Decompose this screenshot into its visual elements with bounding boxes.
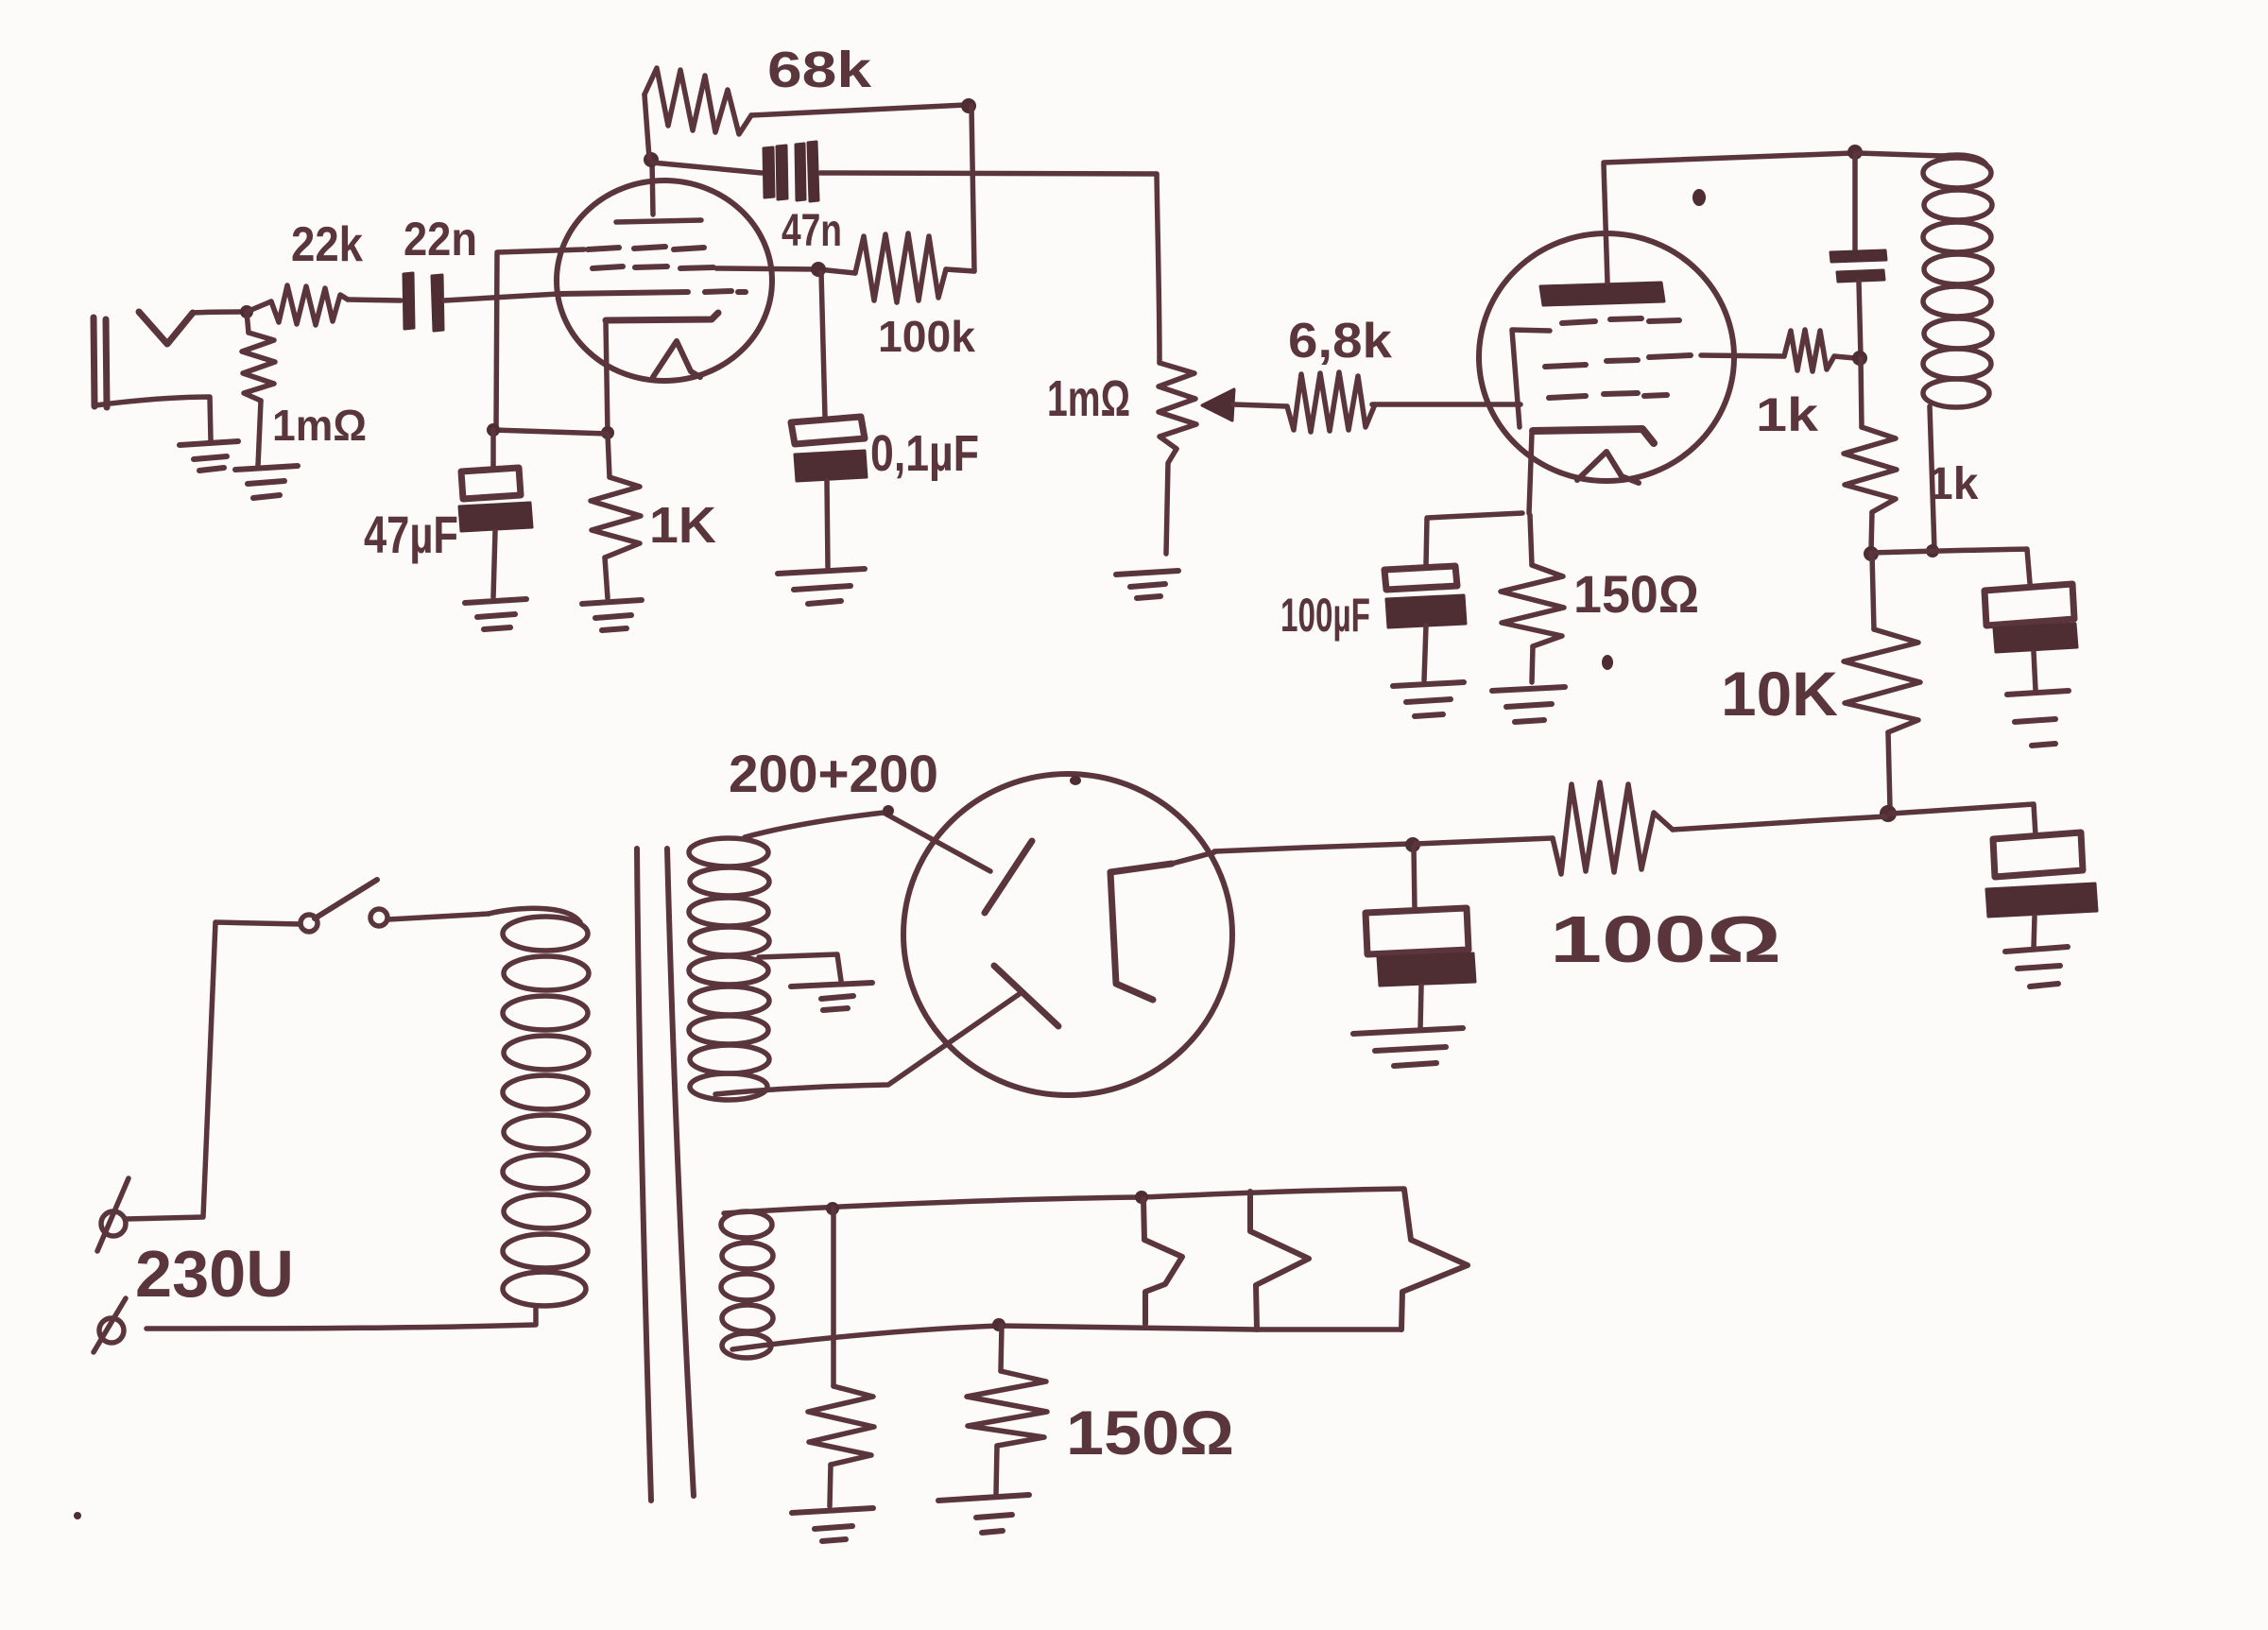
switch S1 [301, 880, 387, 932]
svg-text:150Ω: 150Ω [1066, 1398, 1234, 1467]
ground filter cap [1353, 1028, 1463, 1066]
node coil rail joint [1926, 544, 1939, 558]
ink blot near V2 [1692, 189, 1706, 206]
wire cathode V3 to B+ [1172, 852, 1214, 864]
wire down to 47uF [490, 430, 496, 469]
heater winding bottom wire [732, 1326, 1401, 1349]
wire 100k right vertical [971, 106, 974, 271]
capacitor 47n feedback [764, 142, 818, 201]
wire screen node down [821, 272, 825, 417]
heater V2 [1577, 452, 1639, 483]
wire wiper to 6.8k [1233, 404, 1287, 406]
grid g1 dashes V2 [1549, 393, 1667, 398]
wire L to switch [127, 922, 301, 1219]
wire HV top to rectifier anode [884, 813, 990, 871]
wire HV bottom to rectifier anode2 [715, 993, 1021, 1094]
wire jack tip to node A [193, 312, 245, 313]
wire g3 entry [497, 249, 584, 252]
node screen V1 [811, 262, 826, 277]
node plate V1 [644, 152, 659, 167]
resistor 6.8k grid stopper [1287, 372, 1521, 432]
resistor 150ohm cathode V2 [1501, 515, 1564, 682]
node heater chevron1 [1135, 1191, 1148, 1204]
wire jack sleeve [95, 397, 211, 440]
ground 100uF [1393, 682, 1464, 716]
vacuum tube V1 envelope [557, 180, 772, 381]
capacitor 100uF cathode bypass V2 [1384, 566, 1466, 680]
svg-text:68k: 68k [767, 42, 872, 98]
wire plate to 47n [652, 163, 762, 173]
node heater bottom [992, 1318, 1005, 1331]
resistor 10K dropper [1844, 554, 1920, 808]
transformer primary winding 230V [489, 908, 589, 1306]
wire switch to primary [388, 914, 489, 919]
svg-text:100Ω: 100Ω [1550, 902, 1781, 976]
resistor 100ohm filter [1416, 782, 1886, 874]
resistor 68k feedback [644, 68, 966, 158]
svg-text:22k: 22k [291, 217, 363, 272]
speaker chevron 3 [1401, 1190, 1468, 1330]
transformer core [637, 849, 694, 1501]
svg-text:1k: 1k [1756, 388, 1818, 441]
terminal phase N [94, 1298, 126, 1352]
svg-text:47n: 47n [782, 206, 842, 256]
node B+ rail [1880, 805, 1897, 822]
wire B+ rail right [1891, 804, 2036, 835]
resistor 150ohm heater right [967, 1326, 1047, 1495]
ground 150ohm V2 [1492, 687, 1565, 722]
svg-text:150Ω: 150Ω [1573, 564, 1699, 624]
wire OPT bottom down [1930, 406, 1934, 550]
svg-text:100µF: 100µF [1280, 589, 1370, 642]
grid g2 dashes V1 [593, 266, 713, 268]
svg-text:230U: 230U [135, 1237, 294, 1311]
svg-text:10K: 10K [1721, 659, 1838, 729]
svg-text:1mΩ: 1mΩ [1047, 370, 1130, 427]
ground center tap [791, 983, 872, 1010]
resistor 1k vertical dropper [1844, 358, 1897, 551]
ground rail cap lower [2005, 947, 2068, 987]
node top right [961, 98, 976, 113]
capacitor 0.1uF screen bypass [791, 417, 867, 567]
ground 47uF [465, 599, 526, 629]
cathode V1 [606, 313, 718, 433]
grid g3 dashes V1 [588, 247, 704, 249]
ground rail cap upper [2007, 691, 2069, 746]
grid g1 dashes V1 [558, 291, 746, 294]
wire 47n to pot corner [820, 173, 1157, 174]
resistor 22k series [247, 285, 401, 325]
speaker chevron 2 [1250, 1192, 1309, 1330]
resistor R 1M input grid leak [242, 312, 275, 466]
wire pot feed vertical [1157, 174, 1160, 363]
ground jack sleeve [180, 441, 238, 471]
wire 22n to tube grid [444, 294, 558, 300]
ground heater left [792, 1508, 873, 1541]
grid g3 V2 with tie [1512, 318, 1679, 427]
svg-text:1K: 1K [649, 497, 716, 554]
terminal phase L [97, 1178, 129, 1251]
node cathode V1 [601, 426, 614, 439]
wire plate V2 to B+ [1604, 153, 1852, 163]
plate bar V2 [1540, 283, 1664, 305]
ink blot rectifier top [1070, 776, 1081, 785]
wire node to OPT [1858, 153, 1943, 156]
node 47uF top [487, 423, 500, 437]
wire g2 exit V2 [1701, 355, 1784, 356]
svg-text:6,8k: 6,8k [1288, 314, 1392, 369]
speaker chevron 1 [1143, 1199, 1182, 1324]
ground 1M [235, 466, 298, 498]
ground pot [1116, 571, 1178, 598]
cathode V2 [1529, 429, 1654, 513]
anode 2 V3 [994, 966, 1058, 1026]
capacitor 22n coupling [404, 273, 443, 331]
svg-text:1mΩ: 1mΩ [272, 401, 367, 450]
input jack J1 [94, 312, 193, 407]
ink blot below V2 [1602, 655, 1613, 670]
wire screen rail [1871, 549, 2030, 583]
transformer OPT primary coil [1923, 155, 1992, 407]
grid g2 dashes V2 [1545, 355, 1691, 367]
capacitor filter first [1366, 847, 1475, 1028]
ground 1K [582, 600, 642, 630]
cathode V3 [1110, 864, 1172, 1000]
wire cathode V2 to 100uF [1426, 513, 1522, 565]
node filter cap [1405, 837, 1420, 852]
ground heater right [938, 1495, 1029, 1533]
plate lead V2 [1604, 164, 1607, 283]
plate lead V1 [652, 161, 653, 214]
svg-text:22n: 22n [404, 213, 477, 266]
ink dot bottom left [74, 1512, 81, 1519]
svg-text:200+200: 200+200 [729, 744, 938, 803]
heater V1 [653, 341, 700, 377]
node screen V2 [1852, 351, 1867, 366]
anode 1 V3 [985, 841, 1032, 913]
node B+ top [1847, 145, 1863, 160]
node rail left [1864, 546, 1879, 561]
svg-text:1k: 1k [1928, 459, 1979, 509]
node HV top [883, 805, 894, 816]
resistor 100k screen [818, 233, 974, 302]
resistor 1k screen V2 [1784, 330, 1855, 371]
svg-text:0,1µF: 0,1µF [870, 425, 979, 482]
ground 0.1uF [778, 569, 865, 604]
wire g3 tie vertical [496, 254, 497, 430]
plate bar V1 [616, 220, 701, 222]
svg-text:100k: 100k [878, 312, 975, 361]
potentiometer 1M volume [1159, 363, 1196, 554]
svg-text:47µF: 47µF [364, 505, 458, 564]
wire primary bottom to N [146, 1306, 536, 1329]
wire g2 exit V1 [716, 268, 818, 269]
node A junction [240, 305, 253, 318]
resistor 150ohm heater left [808, 1209, 874, 1506]
pot wiper arrow [1202, 389, 1234, 420]
resistor 1K cathode V1 [591, 434, 641, 598]
vacuum tube V2 envelope [1479, 233, 1734, 481]
capacitor rail bypass lower [1986, 832, 2097, 949]
wire HV center tap [759, 954, 841, 981]
wire cathode to 47uF [493, 430, 608, 434]
transformer HV secondary 200+200 [689, 813, 884, 1100]
node heater left [826, 1202, 839, 1215]
capacitor 47uF cathode bypass [459, 468, 532, 597]
wire rectifier to 100ohm [1214, 844, 1410, 851]
capacitor rail bypass upper [1984, 584, 2077, 690]
rectifier tube V3 envelope [903, 774, 1232, 1095]
transformer heater winding [721, 1211, 773, 1358]
heater winding top wire [724, 1189, 1404, 1213]
capacitor screen to B+ [1830, 153, 1886, 356]
